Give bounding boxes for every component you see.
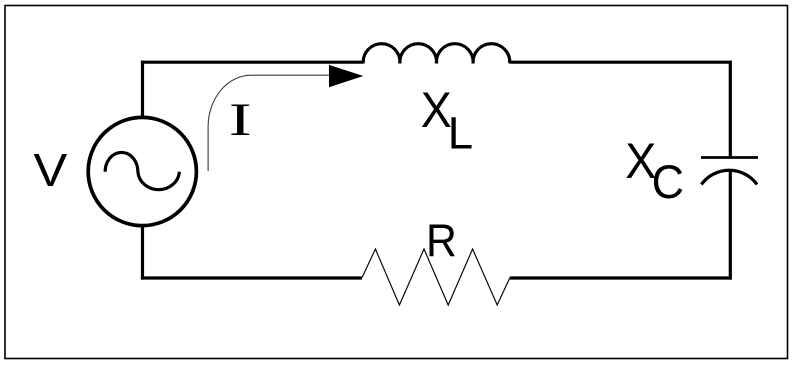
svg-text:I: I bbox=[229, 94, 252, 146]
ac source V1 bbox=[88, 117, 196, 225]
svg-text:C: C bbox=[652, 155, 684, 208]
svg-text:V: V bbox=[34, 145, 69, 196]
wire top horizontal right bbox=[510, 61, 732, 64]
svg-text:L: L bbox=[448, 107, 473, 158]
resistor R1 bbox=[362, 249, 510, 305]
capacitor C1 bbox=[701, 158, 758, 185]
wire bottom-left vertical bbox=[141, 226, 144, 280]
wire top horizontal left bbox=[141, 61, 364, 64]
current arrow I bbox=[208, 65, 363, 171]
wire top-left vertical bbox=[141, 61, 144, 118]
svg-text:R: R bbox=[426, 216, 457, 267]
wire bottom horizontal left bbox=[141, 276, 362, 279]
wire right vertical lower bbox=[729, 170, 732, 279]
wire right vertical upper bbox=[729, 61, 732, 157]
inductor L1 bbox=[363, 44, 510, 64]
wire bottom horizontal right bbox=[510, 276, 732, 279]
